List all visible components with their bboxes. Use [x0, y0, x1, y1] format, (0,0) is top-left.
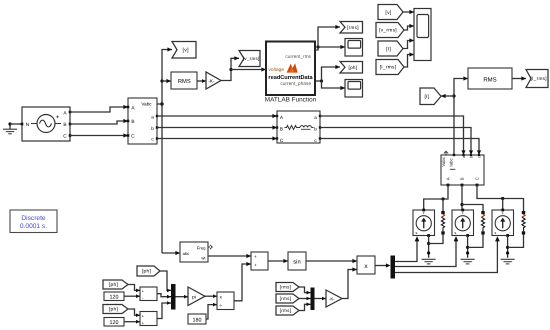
gain -K- (voltage): [206, 72, 221, 89]
controlled current source 1: [413, 209, 435, 237]
wire pi to divide: [205, 294, 217, 298]
svg-text:MATLAB Function: MATLAB Function: [265, 97, 317, 104]
svg-text:C: C: [474, 177, 479, 180]
svg-text:[v]: [v]: [183, 48, 190, 54]
wire source3 minus to R3 and ground: [506, 235, 524, 258]
parallel RLC load R2: [481, 209, 484, 235]
sum block phase C: [140, 312, 157, 326]
svg-text:[ph]: [ph]: [142, 269, 151, 275]
sin function block: [288, 252, 306, 270]
demux 3 outputs: [391, 256, 396, 279]
svg-text:+: +: [254, 263, 257, 268]
svg-text:Vabc: Vabc: [441, 156, 446, 166]
wire load A to source1 and R1: [424, 185, 448, 211]
wire current_rms to [rms] and scope1: [315, 25, 345, 50]
svg-text:[I]: [I]: [386, 46, 391, 52]
svg-text:Iabc: Iabc: [449, 157, 454, 166]
discrete 3-phase PLL block: [180, 242, 212, 262]
parallel RLC load R1: [441, 209, 444, 235]
wire [v] to scope: [403, 10, 414, 14]
wire source A to measurement A: [70, 105, 128, 112]
From tag [ph] top: [137, 266, 160, 276]
svg-text:120: 120: [110, 295, 119, 301]
wire gain2 to product riser: [342, 267, 357, 298]
svg-text:[rms]: [rms]: [280, 308, 292, 313]
wire [I] to scope: [403, 38, 414, 48]
wire Vabc riser to [v] RMS and PLL: [160, 47, 172, 253]
wire PLL wt to sum: [208, 254, 251, 258]
wire [rms]3 to mux: [299, 303, 311, 311]
svg-text:sin: sin: [293, 259, 300, 266]
svg-text:B: B: [63, 122, 66, 128]
wire RLC b to load measurement b: [320, 128, 473, 156]
wire RMS2 to [I_rms]: [512, 76, 526, 80]
mux phase signals: [171, 284, 176, 310]
From tag [rms] 1: [276, 283, 299, 292]
wire RLC a to load measurement a: [320, 116, 466, 155]
ground symbol for phase C load: [501, 259, 515, 264]
Goto tag [v_rms]: [239, 51, 260, 67]
svg-text:pi: pi: [192, 294, 196, 300]
Goto tag [I]: [420, 88, 441, 105]
svg-text:120: 120: [110, 320, 119, 326]
svg-text:readCurrentData: readCurrentData: [268, 74, 313, 81]
RMS block 2: [468, 68, 512, 89]
scope 2: [345, 80, 363, 98]
ground symbol for phase A load: [422, 259, 436, 264]
wire demux out1 to source1 s: [395, 236, 419, 261]
controlled current source 2: [452, 209, 474, 237]
wire [ph] to mux2 in1: [160, 271, 171, 292]
sum block (wt + phase): [251, 252, 268, 270]
parallel RLC load R3: [522, 209, 525, 235]
wire source B to measurement B: [70, 119, 128, 124]
svg-text:c: c: [476, 156, 481, 158]
svg-text:abc: abc: [183, 251, 190, 256]
svg-text:a: a: [314, 115, 317, 120]
svg-text:-K-: -K-: [208, 79, 215, 84]
svg-text:Freq: Freq: [197, 245, 206, 250]
Goto tag [rms]: [340, 22, 363, 34]
wire gain to [v_rms] and MATLAB voltage: [221, 56, 266, 80]
svg-text:+: +: [56, 114, 60, 121]
wire 120a to sum1: [124, 294, 140, 298]
svg-text:180: 180: [193, 318, 202, 324]
svg-text:current_phase: current_phase: [280, 81, 311, 87]
scope 4-input: [414, 9, 431, 61]
From tag [ph] 2: [103, 280, 128, 289]
svg-text:[v_rms]: [v_rms]: [243, 56, 260, 61]
svg-text:N: N: [26, 122, 30, 128]
svg-text:s: s: [416, 231, 418, 235]
constant 180: [188, 314, 206, 324]
three-phase V-I measurement block 1: [127, 98, 159, 144]
label MATLAB Function: [265, 97, 317, 104]
wire a to RLC A: [157, 114, 277, 118]
product block: [357, 256, 375, 274]
svg-text:Discrete: Discrete: [21, 215, 46, 222]
svg-text:÷: ÷: [219, 303, 222, 309]
wire branch to PLL abc: [162, 251, 180, 255]
wire divide to sum riser: [234, 262, 251, 301]
wire sin to product: [306, 259, 357, 263]
three-phase V-I measurement block 2 rotated: [441, 151, 484, 186]
svg-text:a: a: [151, 114, 154, 119]
svg-text:RMS: RMS: [483, 76, 496, 83]
svg-text:[rms]: [rms]: [280, 296, 292, 301]
From tag [rms] 2: [276, 294, 299, 303]
From tag [ph] 3: [103, 305, 128, 314]
ground symbol G1 (source neutral): [3, 122, 17, 133]
svg-text:voltage: voltage: [269, 67, 285, 73]
wire [I_rms] to scope: [404, 52, 414, 67]
From tag [I] (scope input): [378, 41, 403, 56]
Goto tag [I_rms]: [526, 70, 548, 88]
wire demux out3 to source3 s: [395, 236, 500, 272]
constant 120 a: [104, 292, 124, 301]
From tag [rms] 3: [276, 306, 299, 315]
svg-text:s: s: [455, 231, 457, 235]
wire RLC c to load measurement c: [320, 139, 481, 156]
wire load B to source2 and R2: [460, 185, 483, 211]
controlled current source 3: [492, 209, 514, 237]
From tag [v] (scope input): [378, 5, 403, 20]
Goto tag [v]: [172, 42, 196, 59]
svg-text:[I]: [I]: [425, 94, 430, 100]
svg-text:Vabc: Vabc: [141, 101, 152, 106]
wire mux2 to pi gain: [176, 295, 189, 299]
svg-text:C: C: [63, 134, 67, 140]
svg-text:B: B: [280, 126, 283, 131]
ground symbol for phase B load: [461, 259, 475, 264]
wire [v_rms] to scope: [404, 24, 414, 30]
wire c to RLC C: [157, 136, 277, 140]
three-phase source V1: [21, 107, 72, 141]
wire RMS1 to gain: [197, 79, 206, 83]
wire load C to source3 and R3: [477, 185, 524, 211]
svg-text:B: B: [131, 119, 134, 124]
wire source1 minus to R1 and ground: [427, 235, 443, 258]
wire current_phase to [ph] and scope2: [315, 65, 345, 90]
svg-text:[ph]: [ph]: [349, 65, 358, 70]
constant 120 b: [104, 318, 124, 327]
wire sum2 to mux2 in3: [157, 301, 171, 318]
svg-text:[ph]: [ph]: [109, 307, 118, 313]
Goto tag [ph]: [340, 62, 363, 74]
scope 1: [345, 39, 363, 57]
svg-text:-K-: -K-: [329, 297, 335, 302]
wire 180 to divide: [206, 303, 217, 319]
RMS block 1: [171, 72, 197, 89]
wire mux to gain2: [315, 297, 327, 301]
wire Vabc measurement output: [157, 102, 164, 105]
svg-text:[v_rms]: [v_rms]: [379, 28, 397, 34]
svg-text:A: A: [446, 177, 451, 180]
sum block phase B: [140, 287, 157, 301]
svg-text:b: b: [314, 126, 317, 131]
mux rms signals: [311, 288, 315, 311]
svg-text:+: +: [254, 254, 257, 259]
svg-text:B: B: [459, 177, 464, 180]
svg-text:[rms]: [rms]: [347, 25, 359, 30]
wire Iabc measurement to [I] and RMS2: [441, 76, 468, 155]
wire branch to RMS1: [162, 79, 171, 83]
MATLAB Function block readCurrentData: [266, 42, 315, 96]
svg-text:RMS: RMS: [178, 78, 191, 85]
svg-text:b: b: [151, 126, 154, 131]
gain pi: [188, 287, 205, 306]
svg-text:[ph]: [ph]: [109, 282, 118, 288]
svg-text:[I_rms]: [I_rms]: [530, 76, 546, 81]
wire N to ground: [10, 123, 22, 125]
wire source2 minus to R2 and ground: [466, 235, 483, 258]
gain -K- (rms): [326, 290, 342, 307]
From tag [v_rms] (scope input): [376, 23, 404, 38]
powergui block (Discrete 0.0001 s.): [10, 210, 57, 233]
svg-text:[v]: [v]: [385, 10, 391, 16]
wire [ph]3 to sum2: [128, 309, 140, 317]
svg-text:s: s: [495, 231, 497, 235]
wire source C to measurement C: [70, 133, 128, 137]
divide block: [217, 292, 234, 310]
wire [ph]2 to sum1: [128, 285, 140, 293]
wire sum to sin: [268, 259, 288, 263]
wire demux out2 to source2 s: [395, 236, 458, 266]
wire product to demux: [375, 263, 391, 267]
svg-text:[rms]: [rms]: [280, 285, 292, 290]
svg-text:[I_rms]: [I_rms]: [380, 65, 397, 71]
svg-text:0.0001 s.: 0.0001 s.: [20, 223, 47, 230]
wire sum1 to mux2 in2: [157, 294, 171, 299]
From tag [I_rms] (scope input): [376, 60, 404, 75]
wire [rms]2 to mux: [299, 297, 311, 301]
svg-text:current_rms: current_rms: [285, 54, 311, 60]
wire 120b to sum2: [124, 320, 140, 324]
wire b to RLC B: [157, 125, 277, 129]
wire [rms]1 to mux: [299, 287, 311, 294]
three-phase series RLC branch: [276, 111, 321, 143]
